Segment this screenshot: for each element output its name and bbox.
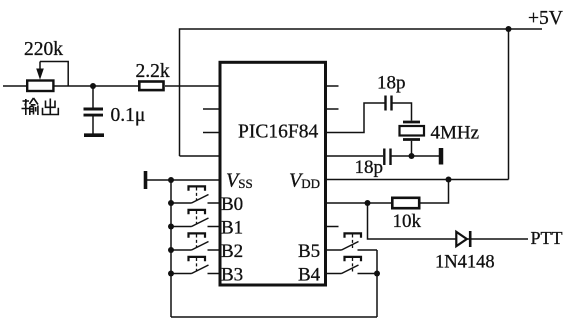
pin stub right row7 xyxy=(327,226,339,228)
node junction dot A xyxy=(90,83,96,89)
node dot rail B3 xyxy=(168,271,174,277)
potentiometer wiper arrow xyxy=(36,62,44,80)
label 输出 (output) xyxy=(22,98,59,115)
switch S6 (B4) xyxy=(327,257,377,274)
node dot VDD xyxy=(446,177,452,183)
wire cap to crystal xyxy=(393,103,412,121)
wire VSS xyxy=(147,179,219,181)
wire to diode xyxy=(368,203,457,239)
svg-text:10k: 10k xyxy=(393,211,422,232)
wire bottom rail xyxy=(171,316,377,318)
resistor R1 2.2k body xyxy=(139,82,163,91)
wire VDD row xyxy=(327,179,509,181)
diode D1 1N4148 xyxy=(456,231,470,247)
svg-text:220k: 220k xyxy=(24,39,63,60)
wire +5V vertical right rail xyxy=(508,29,510,180)
svg-text:B1: B1 xyxy=(221,218,243,239)
wire OSC2 row xyxy=(327,155,383,157)
svg-text:B5: B5 xyxy=(298,241,320,262)
ground bar crystal xyxy=(439,148,444,165)
wire pin to 10k xyxy=(327,202,391,204)
svg-text:0.1μ: 0.1μ xyxy=(111,105,146,126)
ground bar VSS xyxy=(144,171,148,189)
pin stub left row2 xyxy=(203,108,219,110)
svg-text:PIC16F84: PIC16F84 xyxy=(238,122,318,143)
svg-text:PTT: PTT xyxy=(531,228,563,248)
ground bar under C1 xyxy=(84,133,104,137)
svg-text:18p: 18p xyxy=(355,157,384,178)
wire diode to PTT xyxy=(467,238,528,240)
node dot 10k left xyxy=(365,200,371,206)
potentiometer RP1 220k body xyxy=(27,81,53,92)
wire input left xyxy=(3,85,26,87)
node dot rail B2 xyxy=(168,247,174,253)
capacitor C2 18p upper xyxy=(386,96,392,111)
node dot B4 right xyxy=(374,271,380,277)
wire wiper loop xyxy=(40,62,68,87)
wire OSC1 xyxy=(327,103,385,133)
wire 10k to VDD xyxy=(420,180,449,204)
wire pot to junction to resistor xyxy=(54,85,138,87)
svg-text:18p: 18p xyxy=(377,73,406,94)
svg-text:VSS: VSS xyxy=(226,170,253,192)
switch S4 (B3) xyxy=(171,257,219,274)
svg-text:1N4148: 1N4148 xyxy=(435,253,495,273)
svg-text:4MHz: 4MHz xyxy=(431,123,480,144)
wire cap to ground bar xyxy=(391,155,439,157)
svg-text:B4: B4 xyxy=(298,265,321,286)
wire left switch rail xyxy=(170,180,172,317)
switch S3 (B2) xyxy=(171,233,219,250)
capacitor C3 18p lower xyxy=(384,149,390,166)
svg-text:+5V: +5V xyxy=(528,8,563,29)
resistor R2 10k body xyxy=(392,198,419,208)
svg-text:VDD: VDD xyxy=(289,170,320,192)
wire right switch rail xyxy=(376,250,378,317)
switch S5 (B5) xyxy=(327,233,377,250)
wire MCLR to IC xyxy=(180,155,219,157)
svg-text:2.2k: 2.2k xyxy=(136,61,170,82)
pin stub left row3 xyxy=(203,132,219,134)
IC U1 PIC16F84 xyxy=(220,62,326,285)
switch S2 (B1) xyxy=(171,210,219,227)
node dot under crystal xyxy=(409,153,415,159)
svg-text:B2: B2 xyxy=(221,241,243,262)
svg-text:B3: B3 xyxy=(221,265,243,286)
wire resistor to IC xyxy=(165,85,219,87)
crystal X1 4MHz xyxy=(400,122,425,156)
wire top +5V rail xyxy=(180,29,543,156)
node dot rail B0 xyxy=(168,200,174,206)
switch S1 (B0) xyxy=(171,186,219,203)
pin stub right row1 xyxy=(327,85,339,87)
node dot +5V xyxy=(506,26,512,32)
capacitor C1 0.1u xyxy=(84,86,104,134)
svg-text:B0: B0 xyxy=(221,194,243,215)
pin stub right row2 xyxy=(327,108,339,110)
node dot rail B1 xyxy=(168,224,174,230)
node dot VSS rail xyxy=(168,177,174,183)
